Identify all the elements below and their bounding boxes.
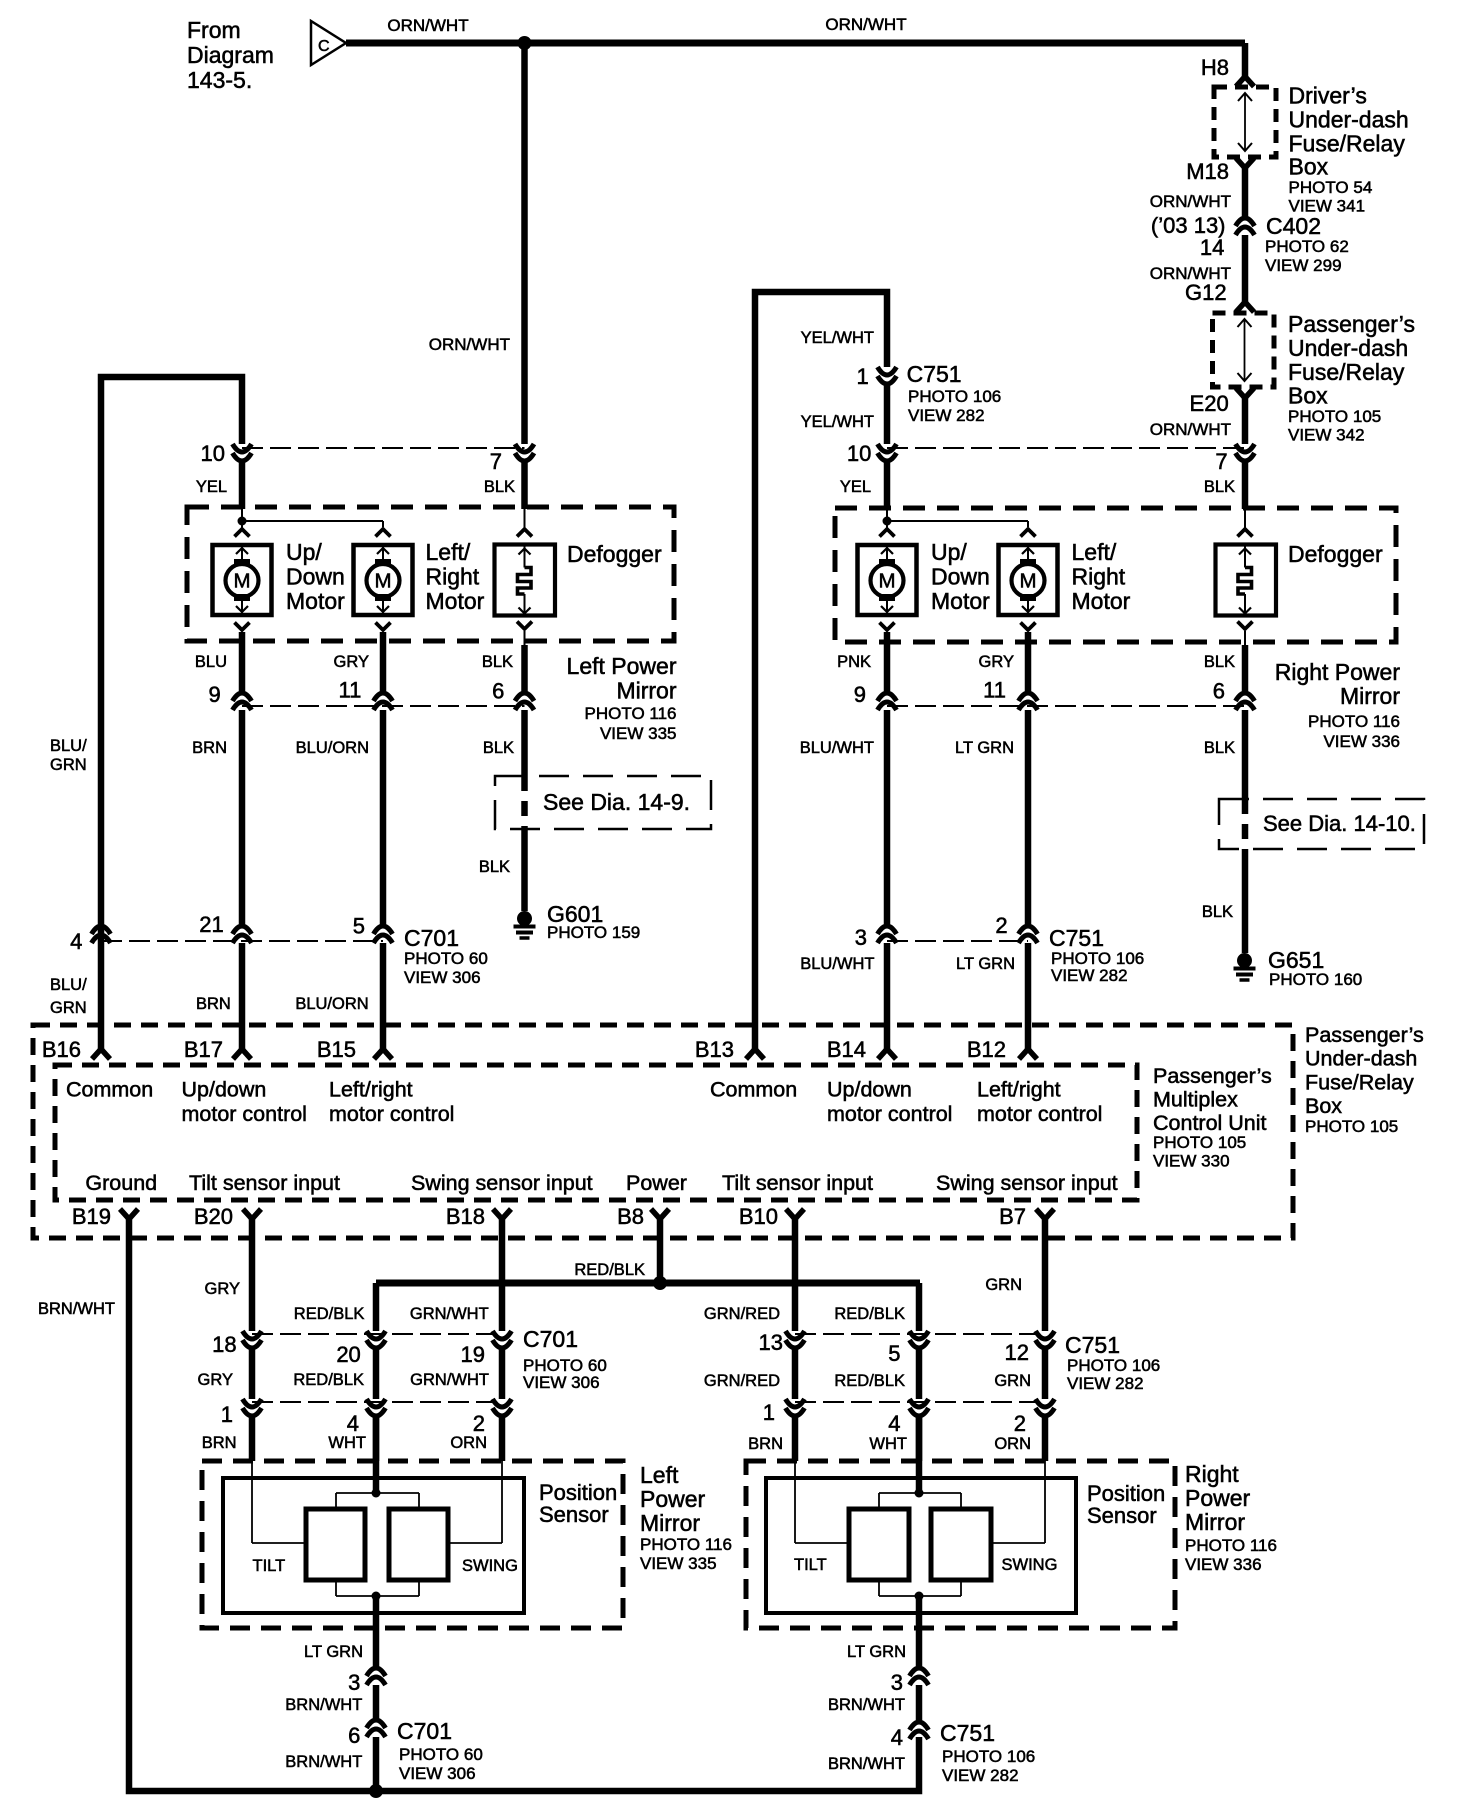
label BLU/ORN <box>296 739 369 757</box>
wire thin top interconnect right <box>879 1493 961 1509</box>
wire RED/BLK right branch down <box>916 1283 923 1331</box>
wire WHT into left sensor <box>373 1416 380 1461</box>
chevron below left/right motor left <box>376 623 391 694</box>
svg-text:BLK: BLK <box>1204 478 1235 496</box>
svg-text:VIEW 299: VIEW 299 <box>1265 256 1342 275</box>
label Defogger left <box>567 541 662 567</box>
up/down motor right mirror <box>858 545 917 615</box>
svg-text:PHOTO 62: PHOTO 62 <box>1265 237 1349 256</box>
label B13 <box>695 1037 734 1062</box>
terminal B17 <box>233 1049 251 1059</box>
svg-text:BLK: BLK <box>1204 739 1235 757</box>
label GRN/RED row2 <box>704 1372 780 1390</box>
svg-text:BRN/WHT: BRN/WHT <box>285 1753 362 1771</box>
dashed link line 1-4-2 left <box>252 1401 502 1403</box>
connector 6 lower left <box>367 1720 386 1737</box>
svg-text:Left: Left <box>640 1462 679 1488</box>
label BRN/WHT B19 <box>38 1300 115 1318</box>
svg-text:C701: C701 <box>523 1326 578 1352</box>
terminal B13 <box>746 1049 764 1059</box>
wire WHT into top node right <box>916 1416 923 1493</box>
chevron below defogger left <box>517 622 532 694</box>
label GRN/RED (right col 1) <box>704 1305 780 1323</box>
svg-text:Common: Common <box>66 1078 153 1102</box>
svg-text:PHOTO 116: PHOTO 116 <box>1308 712 1400 731</box>
wire GRY 18-1 <box>249 1348 256 1399</box>
svg-text:TILT: TILT <box>794 1556 827 1574</box>
svg-text:GRN/RED: GRN/RED <box>704 1305 780 1323</box>
svg-text:6: 6 <box>1213 679 1225 704</box>
label BLK above G651 <box>1202 903 1233 921</box>
svg-text:YEL/WHT: YEL/WHT <box>801 413 874 431</box>
svg-text:3: 3 <box>891 1670 903 1695</box>
svg-text:VIEW 282: VIEW 282 <box>908 406 985 425</box>
label Power <box>626 1171 687 1195</box>
svg-text:Driver’s: Driver’s <box>1289 83 1367 109</box>
left/right motor left mirror <box>354 545 413 615</box>
wire BRN/WHT B19 down to bottom bus <box>129 1219 919 1791</box>
connector 2 right <box>1036 1399 1055 1416</box>
svg-text:PNK: PNK <box>837 653 871 671</box>
label Left/right motor control left <box>329 1078 454 1127</box>
terminal M18 below driver fuse box <box>1236 158 1254 168</box>
wire BRN/WHT 3-6 <box>373 1685 380 1720</box>
svg-text:BRN: BRN <box>202 1434 237 1452</box>
svg-text:2: 2 <box>995 913 1007 938</box>
label ORN/WHT below E20 <box>1150 420 1231 439</box>
swing potentiometer left <box>389 1509 448 1580</box>
connector pin 11 left <box>374 693 393 710</box>
passenger's multiplex control unit box (dashed) <box>55 1065 1137 1200</box>
label BRN row3 right <box>748 1435 783 1453</box>
svg-text:VIEW 306: VIEW 306 <box>404 968 481 987</box>
chevron below left/right motor right <box>1021 623 1036 694</box>
chevron into up/down motor right <box>880 529 895 537</box>
svg-text:Multiplex: Multiplex <box>1153 1088 1238 1112</box>
wire BLK pin7 into left mirror box <box>521 461 528 509</box>
svg-text:PHOTO 159: PHOTO 159 <box>547 923 640 942</box>
label B15 <box>317 1037 356 1062</box>
svg-text:Common: Common <box>710 1078 797 1102</box>
label C751 PHOTO 106 VIEW 282 (bottom) <box>940 1720 1035 1785</box>
svg-text:1: 1 <box>763 1400 775 1425</box>
wire thin BRN inside right sensor <box>795 1461 849 1543</box>
label E20 <box>1190 391 1229 416</box>
label BLU/GRN (lower) <box>50 976 87 1017</box>
svg-text:B8: B8 <box>617 1204 644 1229</box>
label BLK below pin 7 right <box>1204 478 1235 496</box>
svg-text:ORN/WHT: ORN/WHT <box>1150 192 1231 211</box>
connector 5 right <box>910 1331 929 1348</box>
label Passenger's Multiplex Control Unit <box>1153 1064 1272 1171</box>
svg-text:13: 13 <box>759 1330 783 1355</box>
dashed link line connectors 4-21-5 <box>101 940 383 942</box>
label 20 <box>336 1342 360 1367</box>
label 7 right <box>1215 449 1227 474</box>
wire thin junction to left/right motor <box>242 509 383 528</box>
svg-text:Passenger’s: Passenger’s <box>1288 311 1415 337</box>
connector pin 7 right mirror <box>1236 444 1255 461</box>
svg-text:Motor: Motor <box>931 588 990 614</box>
wire RED/BLK B8 down to junction <box>657 1219 664 1283</box>
label 13 <box>759 1330 783 1355</box>
svg-text:10: 10 <box>847 441 871 466</box>
svg-text:VIEW 282: VIEW 282 <box>1067 1374 1144 1393</box>
svg-text:21: 21 <box>199 912 223 937</box>
wire BLK pin7 into right mirror box <box>1242 461 1249 509</box>
svg-text:6: 6 <box>348 1723 360 1748</box>
driver's under-dash fuse/relay box (dashed) <box>1214 87 1276 157</box>
svg-text:PHOTO 106: PHOTO 106 <box>908 387 1001 406</box>
label B8 <box>617 1204 644 1229</box>
terminal B20 <box>243 1209 261 1219</box>
svg-text:B12: B12 <box>967 1037 1006 1062</box>
ground G651 <box>1234 953 1256 980</box>
svg-text:VIEW 342: VIEW 342 <box>1288 426 1365 445</box>
label C701 PHOTO 60 VIEW 306 (mid) <box>404 925 488 987</box>
connector 5 inline <box>374 926 393 943</box>
label Left/right motor control right <box>977 1078 1102 1127</box>
svg-text:VIEW 335: VIEW 335 <box>600 724 677 743</box>
passenger's under-dash fuse/relay box outer (dashed) <box>33 1025 1293 1238</box>
svg-text:12: 12 <box>1005 1340 1029 1365</box>
svg-text:Right Power: Right Power <box>1275 659 1401 685</box>
label C751 PHOTO 106 VIEW 282 (lower) <box>1065 1332 1160 1393</box>
connector 21 inline <box>233 926 252 943</box>
wire GRN/WHT 19-2 <box>499 1348 506 1399</box>
svg-text:Up/down: Up/down <box>182 1078 267 1102</box>
svg-text:B15: B15 <box>317 1037 356 1062</box>
svg-text:WHT: WHT <box>328 1434 366 1452</box>
label GRN/WHT (left col 3) <box>410 1305 489 1323</box>
svg-text:BRN/WHT: BRN/WHT <box>828 1755 905 1773</box>
label TILT right <box>794 1556 827 1574</box>
dashed link line 13-5-12 <box>795 1333 1045 1335</box>
svg-text:GRN/WHT: GRN/WHT <box>410 1371 489 1389</box>
label BRN/WHT mid right <box>828 1696 905 1714</box>
svg-text:Mirror: Mirror <box>1185 1509 1245 1535</box>
svg-text:GRN: GRN <box>994 1372 1031 1390</box>
connector 2 left <box>493 1399 512 1416</box>
svg-text:Fuse/Relay: Fuse/Relay <box>1288 359 1405 385</box>
label B19 <box>72 1204 111 1229</box>
wire BLK pin6 down to see-dia 14-10 <box>1242 710 1249 799</box>
dashed link line pins 9-11-6 right <box>887 705 1245 707</box>
wire BLU/ORN pin11 down <box>380 710 387 926</box>
terminal G12 into passenger fuse box <box>1236 302 1254 312</box>
svg-text:ORN: ORN <box>994 1435 1031 1453</box>
svg-text:GRN/RED: GRN/RED <box>704 1372 780 1390</box>
svg-text:VIEW 306: VIEW 306 <box>399 1764 476 1783</box>
svg-text:C701: C701 <box>397 1718 452 1744</box>
label 5 <box>353 914 365 939</box>
connector 1 left <box>243 1399 262 1416</box>
wire BLU/WHT to B14 <box>884 943 891 1050</box>
chevron into up/down motor left <box>235 529 250 537</box>
svg-text:Down: Down <box>286 564 345 590</box>
svg-text:H8: H8 <box>1201 55 1229 80</box>
terminal B16 <box>92 1049 110 1059</box>
svg-text:C751: C751 <box>907 361 962 387</box>
right power mirror box (dashed) <box>835 508 1396 642</box>
label 1 right <box>763 1400 775 1425</box>
wire RED/BLK horizontal distribution <box>376 1280 920 1287</box>
label WHT row3 <box>328 1434 366 1452</box>
svg-text:BLK: BLK <box>1202 903 1233 921</box>
svg-text:Under-dash: Under-dash <box>1288 335 1408 361</box>
svg-text:20: 20 <box>336 1342 360 1367</box>
label BLU/GRN (upper) <box>50 737 87 774</box>
svg-text:E20: E20 <box>1190 391 1229 416</box>
wire RED/BLK left branch down <box>373 1283 380 1331</box>
passenger's under-dash fuse/relay box (dashed) <box>1213 313 1275 387</box>
svg-text:SWING: SWING <box>1002 1556 1058 1574</box>
wire YEL pin10 into right mirror box <box>884 461 891 509</box>
label ORN/WHT below M18 <box>1150 192 1231 211</box>
label B12 <box>967 1037 1006 1062</box>
label GRN upper <box>985 1276 1022 1294</box>
chevron below defogger right <box>1238 622 1253 694</box>
svg-text:B10: B10 <box>739 1204 778 1229</box>
wire WHT into right sensor <box>916 1416 923 1461</box>
wire BLU/ORN to B15 <box>380 943 387 1050</box>
svg-text:Swing sensor input: Swing sensor input <box>936 1171 1118 1195</box>
label ORN/WHT above G12 <box>1150 264 1231 283</box>
wire ORN/WHT top horizontal bus <box>346 40 1245 47</box>
connector pin 6 right <box>1236 693 1255 710</box>
wire LT GRN to B12 <box>1025 943 1032 1050</box>
wire BRN into left sensor <box>249 1416 256 1461</box>
svg-text:motor control: motor control <box>329 1102 454 1126</box>
wire GRN 12-2 <box>1042 1348 1049 1399</box>
label C402 PHOTO 62 VIEW 299 <box>1265 213 1349 275</box>
node junction dot right mirror <box>883 517 892 526</box>
label Up/Down Motor right <box>931 539 990 614</box>
svg-text:BLK: BLK <box>1204 653 1235 671</box>
svg-text:BRN/WHT: BRN/WHT <box>285 1696 362 1714</box>
svg-text:Mirror: Mirror <box>616 678 676 704</box>
svg-text:motor control: motor control <box>977 1102 1102 1126</box>
svg-text:SWING: SWING <box>462 1557 518 1575</box>
wire WHT into top node <box>373 1416 380 1493</box>
svg-text:5: 5 <box>888 1341 900 1366</box>
svg-text:19: 19 <box>461 1342 485 1367</box>
label B7 <box>999 1204 1026 1229</box>
svg-text:VIEW 282: VIEW 282 <box>1051 966 1128 985</box>
svg-text:Motor: Motor <box>1072 588 1131 614</box>
label 6 right <box>1213 679 1225 704</box>
label GRN row2 <box>994 1372 1031 1390</box>
svg-text:ORN/WHT: ORN/WHT <box>387 16 468 35</box>
terminal B10 <box>786 1209 804 1219</box>
svg-text:Sensor: Sensor <box>1087 1503 1157 1528</box>
svg-text:PHOTO 116: PHOTO 116 <box>640 1535 732 1554</box>
left/right motor right mirror <box>999 545 1058 615</box>
label C751 PHOTO 106 VIEW 282 (mid right) <box>1049 925 1144 985</box>
connector 3 lower right <box>910 1668 929 1685</box>
svg-text:Box: Box <box>1305 1094 1342 1118</box>
label 7 <box>490 449 502 474</box>
svg-text:BRN/WHT: BRN/WHT <box>828 1696 905 1714</box>
svg-text:GRN: GRN <box>50 756 87 774</box>
svg-text:2: 2 <box>473 1411 485 1436</box>
wire BRN/WHT 6 to bus <box>373 1737 380 1791</box>
label YEL below pin 10 right <box>840 478 871 496</box>
chevron below up/down motor right <box>880 623 895 694</box>
svg-text:PHOTO 105: PHOTO 105 <box>1305 1117 1398 1136</box>
svg-text:PHOTO 106: PHOTO 106 <box>942 1747 1035 1766</box>
label G12 <box>1185 280 1227 305</box>
svg-text:M: M <box>374 570 391 593</box>
svg-text:Tilt sensor input: Tilt sensor input <box>722 1171 873 1195</box>
connector 12 <box>1036 1331 1055 1348</box>
label BLK below pin 7 <box>484 478 515 496</box>
right position sensor inner box <box>766 1478 1076 1613</box>
label 1 <box>856 364 868 389</box>
label Position Sensor left <box>539 1480 617 1527</box>
label TILT left <box>253 1557 286 1575</box>
svg-text:14: 14 <box>1200 235 1224 260</box>
junction dot RED/BLK <box>653 1276 667 1290</box>
connector 4 right <box>910 1399 929 1416</box>
label 19 <box>461 1342 485 1367</box>
svg-text:VIEW 306: VIEW 306 <box>523 1373 600 1392</box>
svg-text:Ground: Ground <box>85 1171 157 1195</box>
svg-text:PHOTO 105: PHOTO 105 <box>1288 407 1381 426</box>
svg-text:Right: Right <box>1185 1461 1239 1487</box>
label C751 PHOTO 106 VIEW 282 (pin1) <box>907 361 1002 425</box>
label BRN/WHT bottom right <box>828 1755 905 1773</box>
svg-text:VIEW 336: VIEW 336 <box>1185 1555 1262 1574</box>
svg-text:Up/: Up/ <box>931 539 967 565</box>
svg-text:C751: C751 <box>1049 925 1104 951</box>
label BLK above G601 <box>479 858 510 876</box>
label RED/BLK row2 <box>293 1371 364 1389</box>
wire RED/BLK 20-4 <box>373 1348 380 1399</box>
label H8 <box>1201 55 1229 80</box>
defogger element left mirror <box>495 545 556 616</box>
label Left/Right Motor left <box>426 539 485 614</box>
svg-text:C: C <box>318 38 330 55</box>
svg-text:C751: C751 <box>940 1720 995 1746</box>
svg-text:Tilt sensor input: Tilt sensor input <box>189 1171 340 1195</box>
label BLU/ORN lower <box>295 995 368 1013</box>
label 9 <box>209 682 221 707</box>
terminal B18 <box>493 1209 511 1219</box>
connector pin 10 right mirror <box>878 444 897 461</box>
svg-text:PHOTO 160: PHOTO 160 <box>1269 970 1362 989</box>
label 10 right <box>847 441 871 466</box>
chevron into left/right motor right <box>1021 529 1036 537</box>
svg-text:LT GRN: LT GRN <box>847 1643 906 1661</box>
svg-text:GRY: GRY <box>198 1371 233 1389</box>
swing potentiometer right <box>931 1509 991 1580</box>
label LT GRN left <box>304 1643 363 1661</box>
svg-text:B17: B17 <box>184 1037 223 1062</box>
connector 20 <box>367 1331 386 1348</box>
connector 3 inline right <box>878 926 897 943</box>
left position sensor inner box <box>223 1478 524 1613</box>
wire ORN/WHT vertical to left defogger pin 7 <box>521 43 528 444</box>
svg-text:Power: Power <box>640 1486 706 1512</box>
label 2 <box>995 913 1007 938</box>
label G601 PHOTO 159 <box>547 901 640 942</box>
label Left Power Mirror (sensor) <box>640 1462 732 1573</box>
node bottom dot right sensor <box>915 1592 924 1601</box>
dashed link line connectors 10-7 left <box>242 447 525 449</box>
svg-text:BLU/ORN: BLU/ORN <box>295 995 368 1013</box>
node bottom dot left sensor <box>372 1592 381 1601</box>
label Driver's Under-dash Fuse/Relay Box <box>1289 83 1409 216</box>
label BRN row3 <box>202 1434 237 1452</box>
svg-text:RED/BLK: RED/BLK <box>574 1261 645 1279</box>
svg-text:YEL: YEL <box>840 478 871 496</box>
svg-text:3: 3 <box>855 925 867 950</box>
svg-text:M: M <box>1019 570 1036 593</box>
svg-text:5: 5 <box>353 914 365 939</box>
label Position Sensor right <box>1087 1481 1165 1528</box>
label ORN/WHT above pin 7 left <box>429 335 510 354</box>
wire YEL/WHT pin1 to pin10 <box>884 384 891 444</box>
label Swing sensor input right <box>936 1171 1118 1195</box>
svg-text:YEL/WHT: YEL/WHT <box>801 329 874 347</box>
label BRN <box>192 739 227 757</box>
wire BLK to G651 <box>1242 849 1249 953</box>
label 4 <box>70 929 82 954</box>
svg-text:GRY: GRY <box>205 1280 240 1298</box>
svg-text:B14: B14 <box>827 1037 866 1062</box>
wire thin BRN inside left sensor <box>252 1461 306 1543</box>
label B14 <box>827 1037 866 1062</box>
label C701 PHOTO 60 VIEW 306 (bottom) <box>397 1718 483 1783</box>
svg-text:Power: Power <box>1185 1485 1251 1511</box>
tilt potentiometer right <box>849 1509 909 1580</box>
svg-text:RED/BLK: RED/BLK <box>834 1305 905 1323</box>
svg-text:ORN/WHT: ORN/WHT <box>825 15 906 34</box>
wire ORN into left sensor <box>499 1416 506 1461</box>
svg-text:Fuse/Relay: Fuse/Relay <box>1305 1070 1414 1094</box>
svg-text:PHOTO 60: PHOTO 60 <box>404 949 488 968</box>
label BLK above pin 6 right <box>1204 653 1235 671</box>
wire BRN pin9 down <box>239 710 246 926</box>
wire BRN to B17 <box>239 943 246 1050</box>
label Swing sensor input left <box>411 1171 593 1195</box>
svg-text:motor control: motor control <box>182 1102 307 1126</box>
connector pin 9 right <box>878 693 897 710</box>
svg-text:18: 18 <box>212 1332 236 1357</box>
label BRN lower <box>196 995 231 1013</box>
svg-text:Power: Power <box>626 1171 687 1195</box>
right position sensor outer box (dashed) <box>746 1461 1175 1628</box>
label BLU/WHT lower <box>800 955 874 973</box>
label GRY above pin 11 right <box>979 653 1014 671</box>
label GRN/WHT row2 <box>410 1371 489 1389</box>
label LT GRN right <box>847 1643 906 1661</box>
svg-text:BLU/ORN: BLU/ORN <box>296 739 369 757</box>
label G651 PHOTO 160 <box>1268 947 1362 989</box>
wire RED/BLK 5-4 <box>916 1348 923 1399</box>
label Defogger right <box>1288 541 1383 567</box>
ground G601 <box>514 911 536 938</box>
svg-text:B13: B13 <box>695 1037 734 1062</box>
svg-text:BLK: BLK <box>482 653 513 671</box>
label 3 lower right <box>891 1670 903 1695</box>
svg-text:GRN: GRN <box>50 999 87 1017</box>
svg-text:Diagram: Diagram <box>187 42 274 68</box>
svg-text:3: 3 <box>348 1670 360 1695</box>
svg-text:BLU/WHT: BLU/WHT <box>800 739 874 757</box>
label Common right <box>710 1078 797 1102</box>
